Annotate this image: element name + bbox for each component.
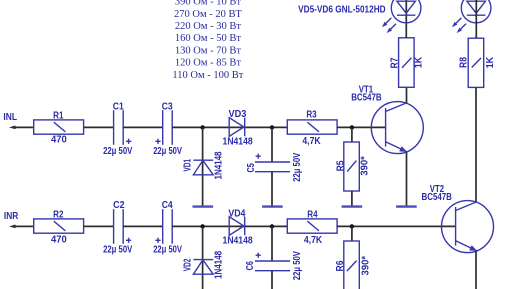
capacitor C4 22u 50V (153, 200, 182, 255)
svg-text:470: 470 (51, 235, 67, 246)
wire R1 to C1 (84, 126, 114, 128)
svg-text:22μ 50V: 22μ 50V (153, 146, 182, 157)
svg-text:R7: R7 (389, 57, 400, 68)
wire R2 to C2 (84, 225, 114, 227)
wire VD6 to R8 (475, 0, 477, 38)
svg-text:C5: C5 (246, 163, 257, 173)
node junction E (270, 224, 274, 228)
wire junction F down to R6 (351, 226, 353, 241)
svg-text:1N4148: 1N4148 (213, 151, 224, 179)
ground under VT1 (396, 205, 417, 207)
diode VD2 1N4148 (183, 251, 225, 279)
svg-text:C4: C4 (162, 200, 173, 211)
svg-text:390 Ом - 10 Вт: 390 Ом - 10 Вт (175, 0, 241, 8)
svg-text:R2: R2 (53, 209, 64, 220)
wire C6 down (271, 271, 273, 289)
svg-text:VD3: VD3 (229, 109, 247, 120)
svg-text:22μ 50V: 22μ 50V (103, 146, 132, 157)
diode VD1 1N4148 (183, 151, 225, 179)
svg-text:470: 470 (51, 135, 67, 146)
wire R4 to VT2 base (337, 225, 456, 227)
svg-text:1K: 1K (485, 56, 496, 68)
svg-text:BC547B: BC547B (351, 93, 381, 104)
svg-text:INR: INR (4, 211, 19, 222)
LED VD6 (452, 0, 491, 33)
capacitor C3 22u 50V (153, 102, 182, 157)
svg-text:390*: 390* (360, 256, 371, 276)
diode VD3 1N4148 (223, 109, 253, 148)
svg-text:1K: 1K (414, 56, 425, 68)
svg-text:INL: INL (3, 112, 17, 123)
ground under C5 (262, 205, 283, 207)
svg-text:R4: R4 (307, 209, 318, 220)
wire junction D down to VD2 (202, 226, 204, 289)
wire R5 to ground (351, 191, 353, 206)
svg-text:VD5-VD6 GNL-5012HD: VD5-VD6 GNL-5012HD (298, 5, 386, 16)
resistor R4 4,7K (287, 209, 337, 246)
node junction A (200, 125, 204, 129)
svg-text:R5: R5 (336, 160, 347, 171)
svg-text:160 Ом - 50 Вт: 160 Ом - 50 Вт (175, 33, 241, 44)
node junction F (350, 224, 354, 228)
wire INR to R2 (14, 225, 34, 227)
svg-text:22μ 50V: 22μ 50V (103, 244, 132, 255)
svg-text:R1: R1 (53, 110, 64, 121)
wire C4 to VD4 (172, 225, 287, 227)
svg-text:270 Ом - 20 ВТ: 270 Ом - 20 ВТ (174, 9, 242, 20)
diode VD4 1N4148 (223, 208, 253, 246)
svg-text:110 Ом - 100 Вт: 110 Ом - 100 Вт (172, 70, 243, 81)
capacitor C2 22u 50V (103, 200, 132, 255)
capacitor C5 22u 50V (246, 153, 303, 182)
svg-text:R6: R6 (335, 260, 346, 271)
node INR input terminal (4, 211, 19, 228)
svg-text:VD1: VD1 (183, 159, 194, 172)
svg-text:22μ 50V: 22μ 50V (292, 153, 303, 182)
LED VD5 (382, 0, 421, 33)
svg-text:VD4: VD4 (228, 208, 245, 219)
svg-text:C2: C2 (113, 200, 125, 211)
transistor VT1 BC547B (351, 85, 423, 154)
resistor R6 390* (335, 241, 371, 289)
wire INL to R1 (14, 126, 34, 128)
svg-text:R8: R8 (459, 57, 470, 68)
svg-text:R3: R3 (306, 110, 317, 121)
note resistor power table (172, 0, 243, 81)
node junction C (350, 125, 354, 129)
wire junction E down to C6 (271, 226, 273, 261)
wire C1 to C3 (123, 126, 163, 128)
svg-text:1N4148: 1N4148 (213, 251, 224, 279)
svg-text:1N4148: 1N4148 (223, 137, 253, 148)
svg-text:390*: 390* (360, 156, 371, 176)
wire R7 to LED VD5 (405, 0, 407, 38)
svg-text:C6: C6 (245, 261, 256, 271)
svg-text:130 Ом - 70 Вт: 130 Ом - 70 Вт (175, 45, 241, 56)
resistor R1 470 (34, 110, 84, 145)
svg-text:220 Ом - 30 Вт: 220 Ом - 30 Вт (175, 21, 241, 32)
ground under R5 (342, 205, 363, 207)
svg-text:4,7K: 4,7K (302, 136, 321, 147)
resistor R2 470 (34, 209, 84, 245)
wire C2 to C4 (123, 225, 163, 227)
transistor VT2 BC547B (422, 184, 494, 252)
node junction B (270, 125, 274, 129)
wire R8 to VT2 collector (475, 87, 477, 202)
svg-text:C3: C3 (162, 102, 173, 113)
capacitor C1 22u 50V (103, 102, 132, 157)
resistor R5 390* (336, 142, 371, 191)
svg-text:1N4148: 1N4148 (223, 236, 253, 247)
svg-text:C1: C1 (113, 102, 124, 113)
svg-text:VD2: VD2 (183, 258, 194, 271)
wire C5 to ground (271, 172, 273, 206)
wire VT1 collector to R7 (406, 87, 408, 103)
resistor R7 1K (389, 38, 424, 88)
svg-text:4,7K: 4,7K (304, 235, 323, 246)
wire VT1 emitter to ground (406, 152, 408, 206)
wire junction C down to R5 (351, 127, 353, 142)
resistor R3 4,7K (287, 110, 337, 147)
ground under VD1 (193, 205, 214, 207)
wire R3 to VT1 base (337, 126, 386, 128)
wire C3 to VD3 (172, 126, 287, 128)
resistor R8 1K (459, 38, 497, 87)
wire junction A down to VD1 (202, 127, 204, 206)
svg-text:120 Ом - 85 Вт: 120 Ом - 85 Вт (175, 58, 241, 69)
svg-text:22μ 50V: 22μ 50V (153, 244, 182, 255)
wire junction B down to C5 (271, 127, 273, 162)
capacitor C6 22u 50V (245, 251, 303, 280)
node junction D (200, 224, 204, 228)
wire VT2 emitter down (475, 251, 477, 289)
node INL input terminal (3, 112, 17, 130)
svg-text:BC547B: BC547B (422, 192, 452, 203)
svg-text:22μ 50V: 22μ 50V (292, 251, 303, 280)
